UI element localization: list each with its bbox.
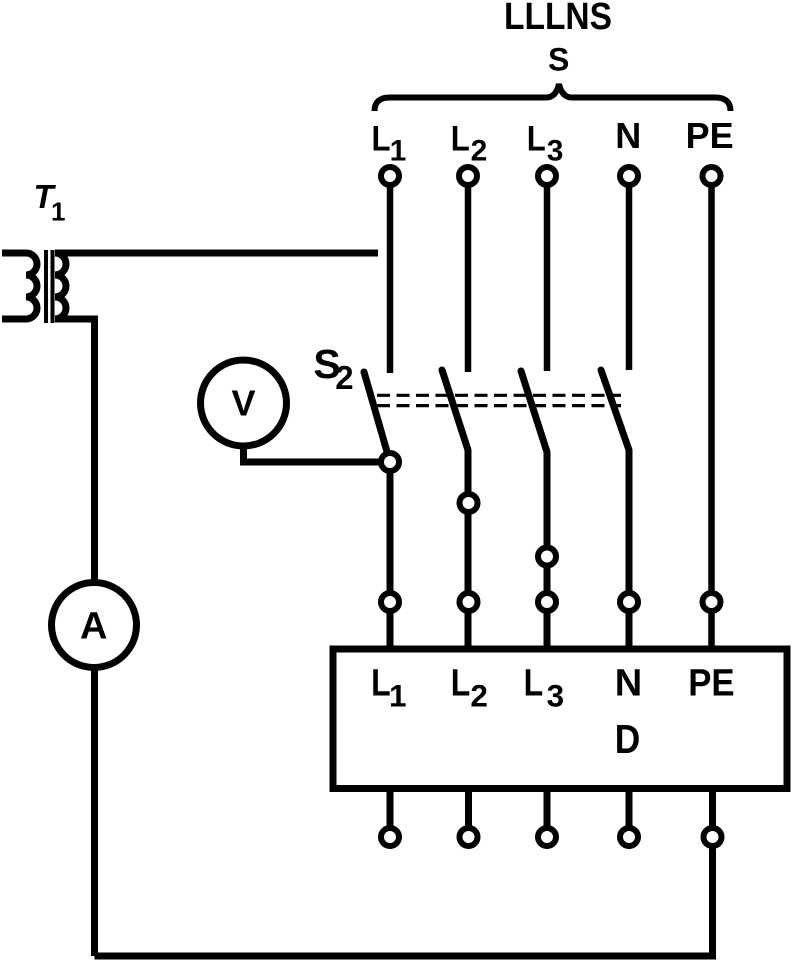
svg-text:2: 2 xyxy=(470,677,488,713)
label L2 (top) xyxy=(451,119,487,168)
svg-text:PE: PE xyxy=(686,115,734,156)
wire bottom return to PE xyxy=(95,847,713,956)
label LLLNS xyxy=(504,0,612,38)
terminal circle PE top xyxy=(703,167,721,185)
wire L3 upper stub xyxy=(544,187,551,371)
terminal circle N above box xyxy=(620,593,638,611)
ammeter A1 xyxy=(52,583,137,668)
svg-text:3: 3 xyxy=(547,134,564,167)
switch pivot circle L1 xyxy=(381,453,399,471)
wire L3 below box xyxy=(544,788,551,826)
switch S2 blade L3 + wire down xyxy=(521,371,547,648)
svg-text:L: L xyxy=(372,119,391,159)
switch S2 blade L1 xyxy=(364,372,390,462)
wire transformer bottom lead down to ammeter xyxy=(55,319,95,582)
device D box xyxy=(333,649,787,789)
terminal circle L3 mid xyxy=(538,548,556,566)
label PE (top) xyxy=(686,115,734,156)
wire voltmeter to switch pivot xyxy=(244,446,381,462)
terminal circle L1 below box xyxy=(381,828,399,846)
label N (in box) xyxy=(615,663,642,705)
wire L1 below box xyxy=(387,788,394,826)
terminal circle L3 top xyxy=(538,167,556,185)
brace over supply terminals xyxy=(375,84,731,111)
label L1 (top) xyxy=(372,119,407,168)
switch S2 blade L2 + wire down xyxy=(442,370,468,648)
terminal circle L1 above box xyxy=(381,593,399,611)
wire L1 upper stub xyxy=(387,187,394,373)
svg-text:L: L xyxy=(371,663,391,705)
terminal circle L2 mid xyxy=(460,494,478,512)
wire N below box xyxy=(626,788,633,826)
svg-text:2: 2 xyxy=(335,359,353,396)
svg-text:1: 1 xyxy=(389,677,407,713)
svg-text:L: L xyxy=(527,119,546,159)
voltmeter V1 xyxy=(201,360,287,446)
svg-text:N: N xyxy=(615,115,641,156)
svg-text:2: 2 xyxy=(471,134,488,167)
label S2 xyxy=(313,341,353,396)
wire ammeter down to bottom return xyxy=(91,668,98,957)
terminal circle PE above box xyxy=(703,593,721,611)
svg-text:L: L xyxy=(451,119,470,159)
switch S2 gang coupling dashed line upper xyxy=(377,394,621,397)
wire PE vertical xyxy=(708,187,715,648)
svg-text:L: L xyxy=(451,663,471,705)
svg-text:3: 3 xyxy=(547,677,565,713)
label L3 (in box) xyxy=(524,663,565,714)
wire N upper stub xyxy=(626,187,633,370)
transformer T1 secondary winding xyxy=(55,253,66,319)
terminal circle L2 top xyxy=(459,167,477,185)
svg-text:V: V xyxy=(232,383,256,424)
wire transformer top lead to L1 xyxy=(55,250,378,257)
transformer T1 primary winding xyxy=(2,253,37,319)
svg-text:1: 1 xyxy=(390,134,407,167)
label D (in box) xyxy=(615,716,641,762)
svg-text:PE: PE xyxy=(688,663,734,705)
terminal circle L3 above box xyxy=(538,593,556,611)
terminal circle PE below box xyxy=(704,828,722,846)
terminal circle L3 below box xyxy=(538,828,556,846)
wire PE below box xyxy=(709,788,716,826)
wire L2 upper stub xyxy=(465,187,472,372)
transformer T1 core xyxy=(46,250,53,323)
svg-text:L: L xyxy=(524,663,544,705)
switch S2 blade N + wire down xyxy=(601,370,629,648)
svg-text:LLLNS: LLLNS xyxy=(504,0,612,38)
terminal circle L1 top xyxy=(381,167,399,185)
terminal circle L2 above box xyxy=(460,593,478,611)
wire L1 pivot down to box xyxy=(387,462,394,648)
label T1 xyxy=(34,178,66,227)
label L3 (top) xyxy=(527,119,564,168)
svg-text:D: D xyxy=(615,716,641,762)
svg-text:A: A xyxy=(80,606,107,648)
label N (top) xyxy=(615,115,641,156)
terminal circle N top xyxy=(620,167,638,185)
label L2 (in box) xyxy=(451,663,488,714)
label PE (in box) xyxy=(688,663,734,705)
label S (net group) xyxy=(548,42,569,78)
svg-text:1: 1 xyxy=(51,197,65,227)
svg-text:N: N xyxy=(615,663,642,705)
terminal circle N below box xyxy=(620,828,638,846)
svg-text:S: S xyxy=(548,42,569,78)
label L1 (in box) xyxy=(371,663,406,714)
terminal circle L2 below box xyxy=(460,828,478,846)
switch S2 gang coupling dashed line lower xyxy=(377,404,621,407)
wire L2 below box xyxy=(465,788,472,826)
